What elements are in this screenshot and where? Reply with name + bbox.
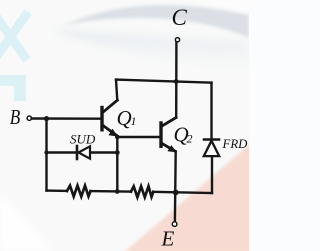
- node emitter1 junction: [115, 135, 120, 140]
- wire Q1 collector: [116, 80, 117, 101]
- terminal E: [172, 222, 177, 227]
- resistor R1: [67, 186, 91, 197]
- diode SUD: [77, 146, 90, 159]
- transistor Q1: [102, 100, 118, 136]
- wire FRD riser: [211, 157, 213, 193]
- wire C line: [175, 42, 178, 118]
- wire Q1 emitter to Q2 base: [117, 136, 160, 138]
- wire bottom right segment: [153, 192, 212, 193]
- transistor Q2: [161, 118, 177, 153]
- wire left rail: [45, 119, 47, 191]
- wire SUD row: [47, 151, 118, 153]
- svg-text:2: 2: [187, 132, 193, 146]
- resistor R2: [131, 186, 153, 197]
- terminal B: [27, 116, 31, 120]
- background decorations (unlabeled): [0, 0, 249, 251]
- svg-text:1: 1: [131, 114, 137, 128]
- svg-text:Q: Q: [117, 106, 132, 130]
- svg-text:SUD: SUD: [70, 132, 96, 147]
- node C junction: [174, 79, 179, 84]
- svg-text:FRD: FRD: [222, 137, 249, 151]
- wire FRD top: [210, 83, 212, 140]
- wire B to Q1 base: [32, 117, 101, 120]
- wire top rail: [116, 80, 212, 83]
- node bottom middle junction: [115, 189, 120, 194]
- wire middle rail: [116, 137, 118, 191]
- wire bottom left segment: [47, 189, 67, 192]
- diode FRD: [204, 140, 219, 157]
- wire Q2 emitter: [174, 152, 177, 222]
- circuit strokes: [27, 38, 219, 227]
- node SUD left junction: [44, 150, 48, 154]
- node B junction: [44, 116, 49, 121]
- svg-text:C: C: [172, 5, 188, 30]
- wire between resistors: [91, 190, 132, 193]
- terminal C: [175, 38, 179, 42]
- node E junction: [173, 190, 179, 196]
- svg-text:E: E: [161, 227, 175, 251]
- node SUD right junction: [115, 150, 120, 155]
- svg-text:B: B: [10, 107, 21, 130]
